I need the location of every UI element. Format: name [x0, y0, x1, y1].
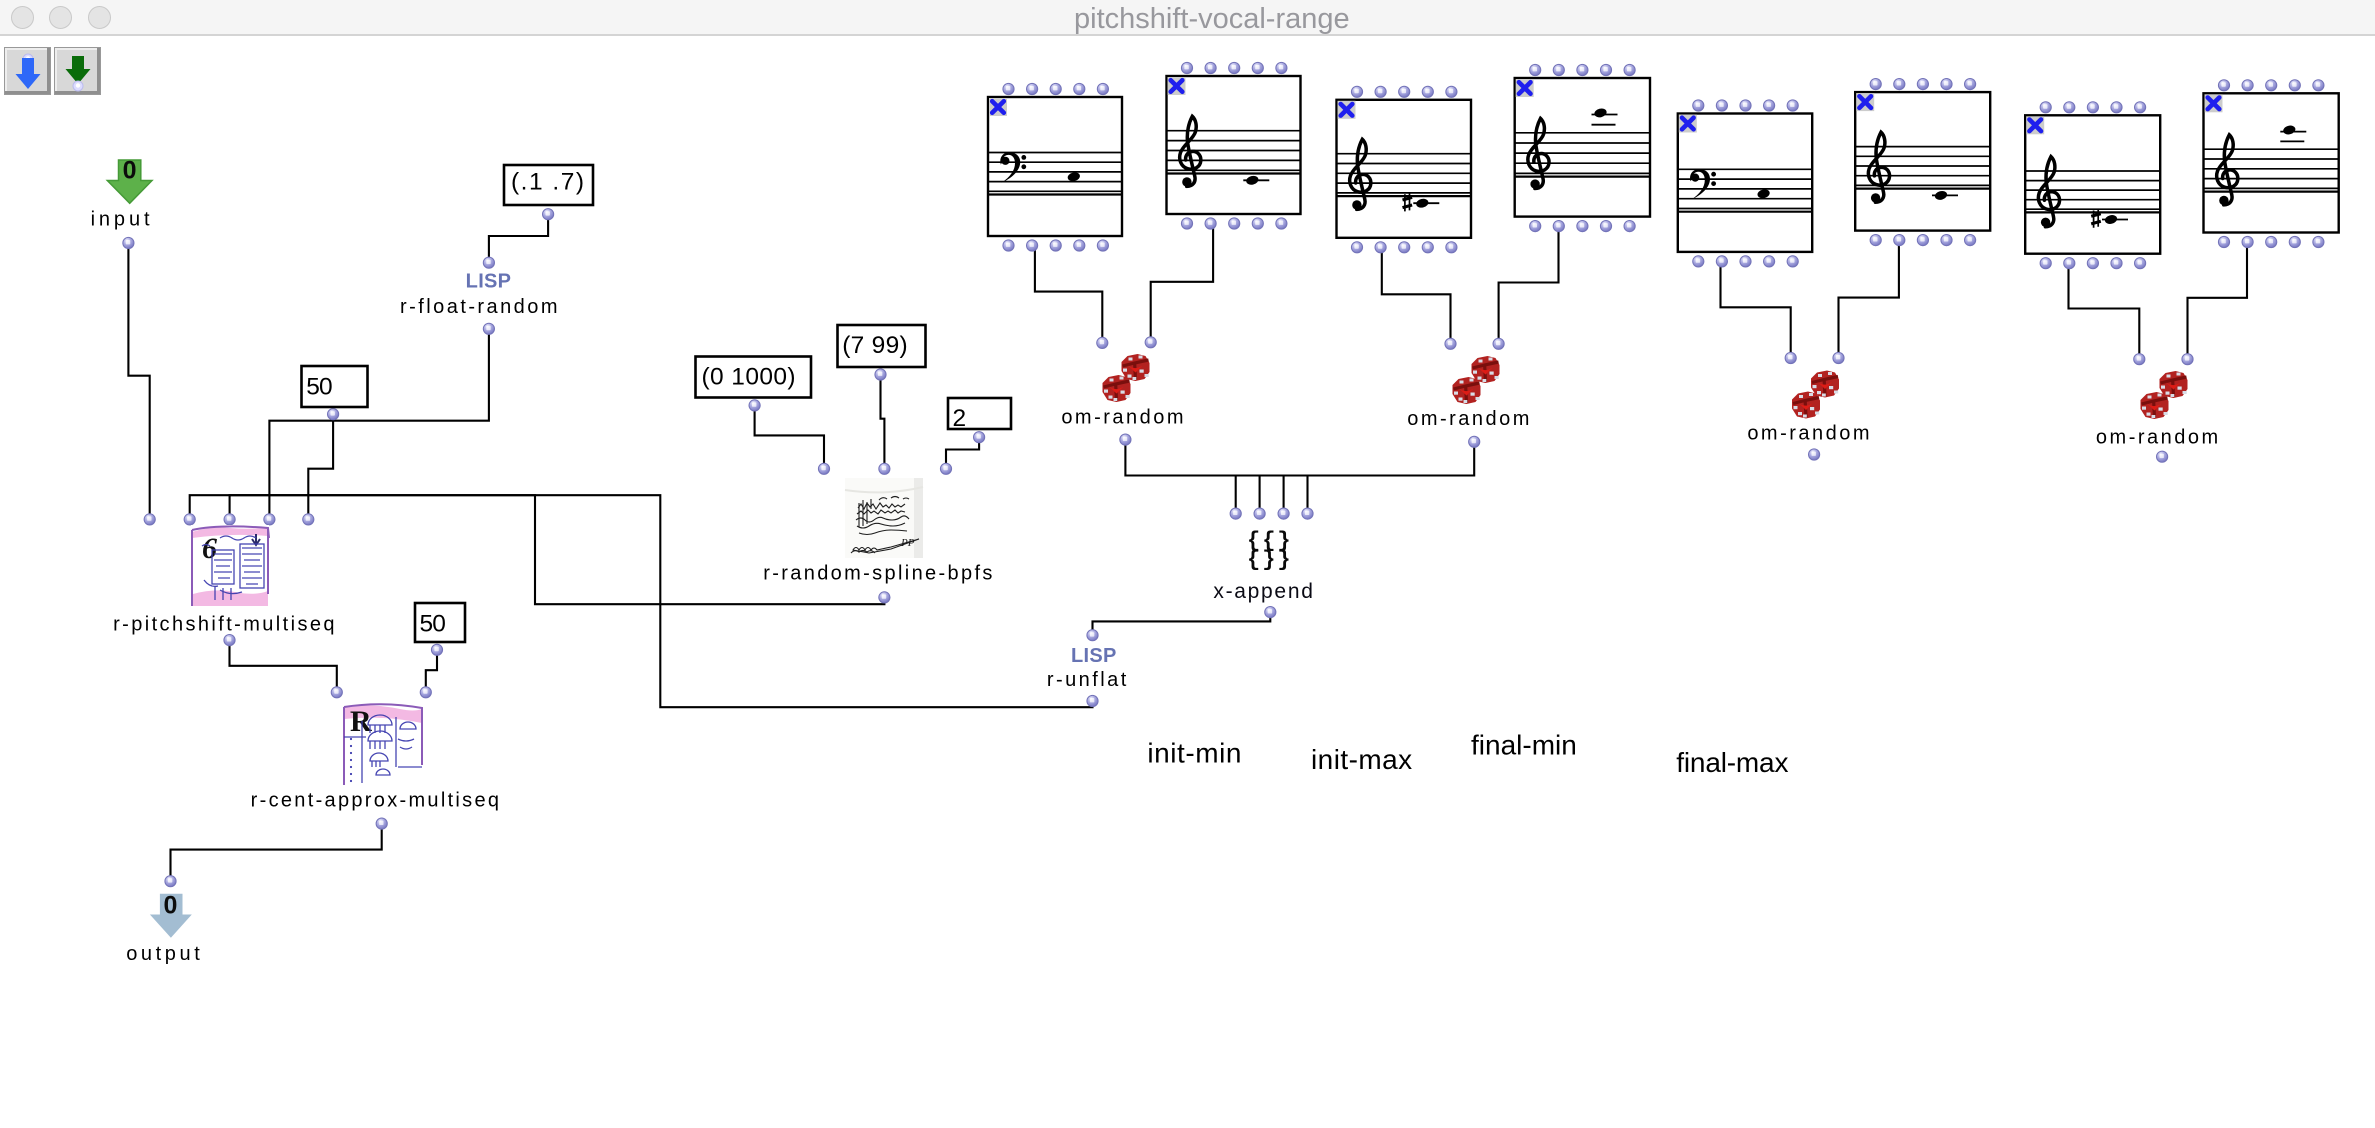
traffic light zoom [88, 6, 111, 29]
svg-text:output: output [126, 943, 203, 965]
ball om-random3 outlet [1809, 449, 1820, 460]
window title bar [0, 0, 2375, 36]
ball om-random2 in2 [1493, 338, 1504, 349]
ball 2 outlet [974, 432, 985, 443]
ball om-random4 in1 [2134, 354, 2145, 365]
toolbar button: new inlet [4, 47, 51, 95]
ball om-random3 in1 [1785, 352, 1796, 363]
svg-text:r-pitchshift-multiseq: r-pitchshift-multiseq [113, 614, 337, 636]
svg-text:final-max: final-max [1676, 747, 1788, 778]
svg-text:r-random-spline-bpfs: r-random-spline-bpfs [763, 563, 995, 585]
svg-text:input: input [91, 209, 154, 231]
svg-text:init-max: init-max [1311, 744, 1413, 775]
wire score box 3->om-random [1382, 250, 1451, 340]
ball om-random1 in2 [1145, 337, 1156, 348]
ball r-unflat inlet [1087, 630, 1098, 641]
toolbar button: new outlet [54, 47, 101, 95]
svg-text:{}}: {}} [1247, 548, 1293, 573]
wire 2->spline in3 [946, 440, 979, 466]
score box 7 (treble sharp) [2025, 102, 2160, 269]
svg-text:om-random: om-random [1407, 408, 1532, 430]
svg-text:50: 50 [420, 610, 446, 637]
ball r-float-random outlet [483, 323, 494, 334]
wire r-cent->output [171, 826, 382, 878]
wire 50b->r-cent in2 [426, 652, 437, 689]
ball (.1 .7) outlet [543, 209, 554, 220]
wire score box 5->om-random [1721, 264, 1791, 354]
ball x-append in3 [1278, 508, 1289, 519]
wire (7 99)->spline in2 [881, 377, 885, 466]
svg-text:r-cent-approx-multiseq: r-cent-approx-multiseq [251, 790, 502, 812]
ball r-cent in1 [331, 687, 342, 698]
window title [1074, 3, 1350, 36]
wire r-float-random->r-pitchshift in4 [269, 331, 489, 516]
score box 4 (treble high) [1515, 64, 1650, 231]
ball x-append in2 [1254, 508, 1265, 519]
wire score box 6->om-random [1839, 243, 1899, 355]
ball (7 99) outlet [875, 369, 886, 380]
ball x-append in1 [1230, 508, 1241, 519]
score box 3 (treble sharp) [1337, 86, 1472, 253]
ball x-append outlet [1265, 607, 1276, 618]
wire (.1 .7)->r-float-random [489, 217, 548, 259]
svg-text:(.1 .7): (.1 .7) [511, 169, 586, 196]
ball r-float-random inlet [483, 257, 494, 268]
svg-text:0: 0 [123, 157, 137, 185]
score box 6 (treble) [1855, 79, 1990, 246]
ball spline in3 [940, 463, 951, 474]
svg-text:(7 99): (7 99) [842, 332, 908, 359]
x-append list icon [1247, 529, 1293, 573]
ball om-random2 in1 [1445, 338, 1456, 349]
ball r-pitchshift in2 [184, 514, 195, 525]
svg-text:LISP: LISP [466, 271, 512, 293]
svg-text:init-min: init-min [1147, 738, 1242, 769]
ball om-random2 outlet [1469, 436, 1480, 447]
ball x-append in4 [1302, 508, 1313, 519]
score box 8 (treble high) [2204, 80, 2339, 248]
score box 5 (bass) [1678, 100, 1812, 267]
score box 1 (bass) [988, 83, 1122, 251]
traffic light minimize [49, 6, 72, 29]
ball om-random4 outlet [2157, 451, 2168, 462]
wire score box 8->om-random [2188, 245, 2248, 356]
svg-text:x-append: x-append [1213, 580, 1314, 603]
wire score box 7->om-random [2069, 266, 2140, 355]
r-random-spline-bpfs icon [845, 478, 923, 558]
output node arrow [150, 892, 192, 938]
ball om-random3 in2 [1833, 352, 1844, 363]
om-random dice 2 [1453, 356, 1500, 404]
ball r-pitchshift in3 [224, 514, 235, 525]
value box (0 1000) [696, 357, 812, 398]
svg-text:PP: PP [900, 537, 915, 549]
value box 50 b [415, 603, 465, 642]
wire x-append->r-unflat [1093, 614, 1271, 632]
om-random dice 4 [2141, 371, 2188, 419]
wire bus stub->x-append in4 [1306, 476, 1308, 511]
wire r-random-spline-bpfs->r-pitchshift in3 [230, 495, 885, 604]
svg-text:2: 2 [953, 405, 967, 432]
svg-text:r-unflat: r-unflat [1047, 669, 1129, 691]
traffic light close [11, 6, 34, 29]
ball r-pitchshift in5 [303, 514, 314, 525]
ball r-pitchshift in4 [264, 514, 275, 525]
om-random dice 1 [1103, 354, 1150, 402]
ball r-cent in2 [420, 687, 431, 698]
wire score box 4->om-random [1499, 227, 1559, 341]
wire 50->r-pitchshift in5 [308, 417, 333, 516]
wire om-random1/2->bus [1125, 442, 1474, 476]
svg-text:final-min: final-min [1471, 730, 1577, 761]
input node arrow [107, 157, 152, 204]
svg-text:om-random: om-random [1747, 423, 1872, 445]
svg-text:0: 0 [164, 892, 178, 920]
ball om-random1 in1 [1097, 337, 1108, 348]
ball spline in2 [879, 463, 890, 474]
svg-text:50: 50 [306, 374, 332, 401]
value box (7 99) [838, 325, 926, 367]
svg-text:om-random: om-random [2096, 427, 2221, 449]
ball input node outlet [123, 237, 134, 248]
wire r-pitchshift->r-cent in1 [230, 643, 337, 689]
wire input->r-pitchshift in1 [128, 246, 149, 516]
wire bus stub->x-append in2 [1259, 476, 1261, 511]
ball (0 1000) outlet [749, 400, 760, 411]
ball om-random1 outlet [1120, 434, 1131, 445]
ball 50 outlet [328, 409, 339, 420]
wire bus stub->x-append in1 [1235, 476, 1237, 511]
ball output node inlet [165, 876, 176, 887]
value box (.1 .7) [504, 165, 593, 205]
ball 50b outlet [431, 644, 442, 655]
ball r-pitchshift outlet [224, 635, 235, 646]
ball r-unflat outlet [1087, 695, 1098, 706]
svg-text:LISP: LISP [1071, 645, 1117, 667]
r-pitchshift-multiseq icon [191, 525, 269, 607]
score box 2 (treble) [1167, 62, 1301, 229]
ball om-random4 in2 [2182, 354, 2193, 365]
r-cent-approx-multiseq icon [343, 704, 423, 785]
wire score box 2->om-random [1151, 224, 1213, 338]
wire r-unflat->r-pitchshift in2 [190, 495, 1093, 707]
om-random dice 3 [1792, 371, 1839, 419]
ball r-pitchshift in1 [144, 514, 155, 525]
svg-text:om-random: om-random [1061, 407, 1186, 429]
wire (0 1000)->spline in1 [755, 408, 824, 466]
ball r-cent outlet [376, 818, 387, 829]
wire score box 1->om-random [1035, 248, 1102, 339]
ball spline in1 [818, 463, 829, 474]
wire bus stub->x-append in3 [1283, 476, 1285, 511]
svg-text:r-float-random: r-float-random [400, 296, 560, 318]
svg-text:(0 1000): (0 1000) [702, 363, 796, 390]
ball spline outlet [879, 592, 890, 603]
value box 2 [948, 398, 1011, 432]
value box 50 a [302, 366, 368, 407]
